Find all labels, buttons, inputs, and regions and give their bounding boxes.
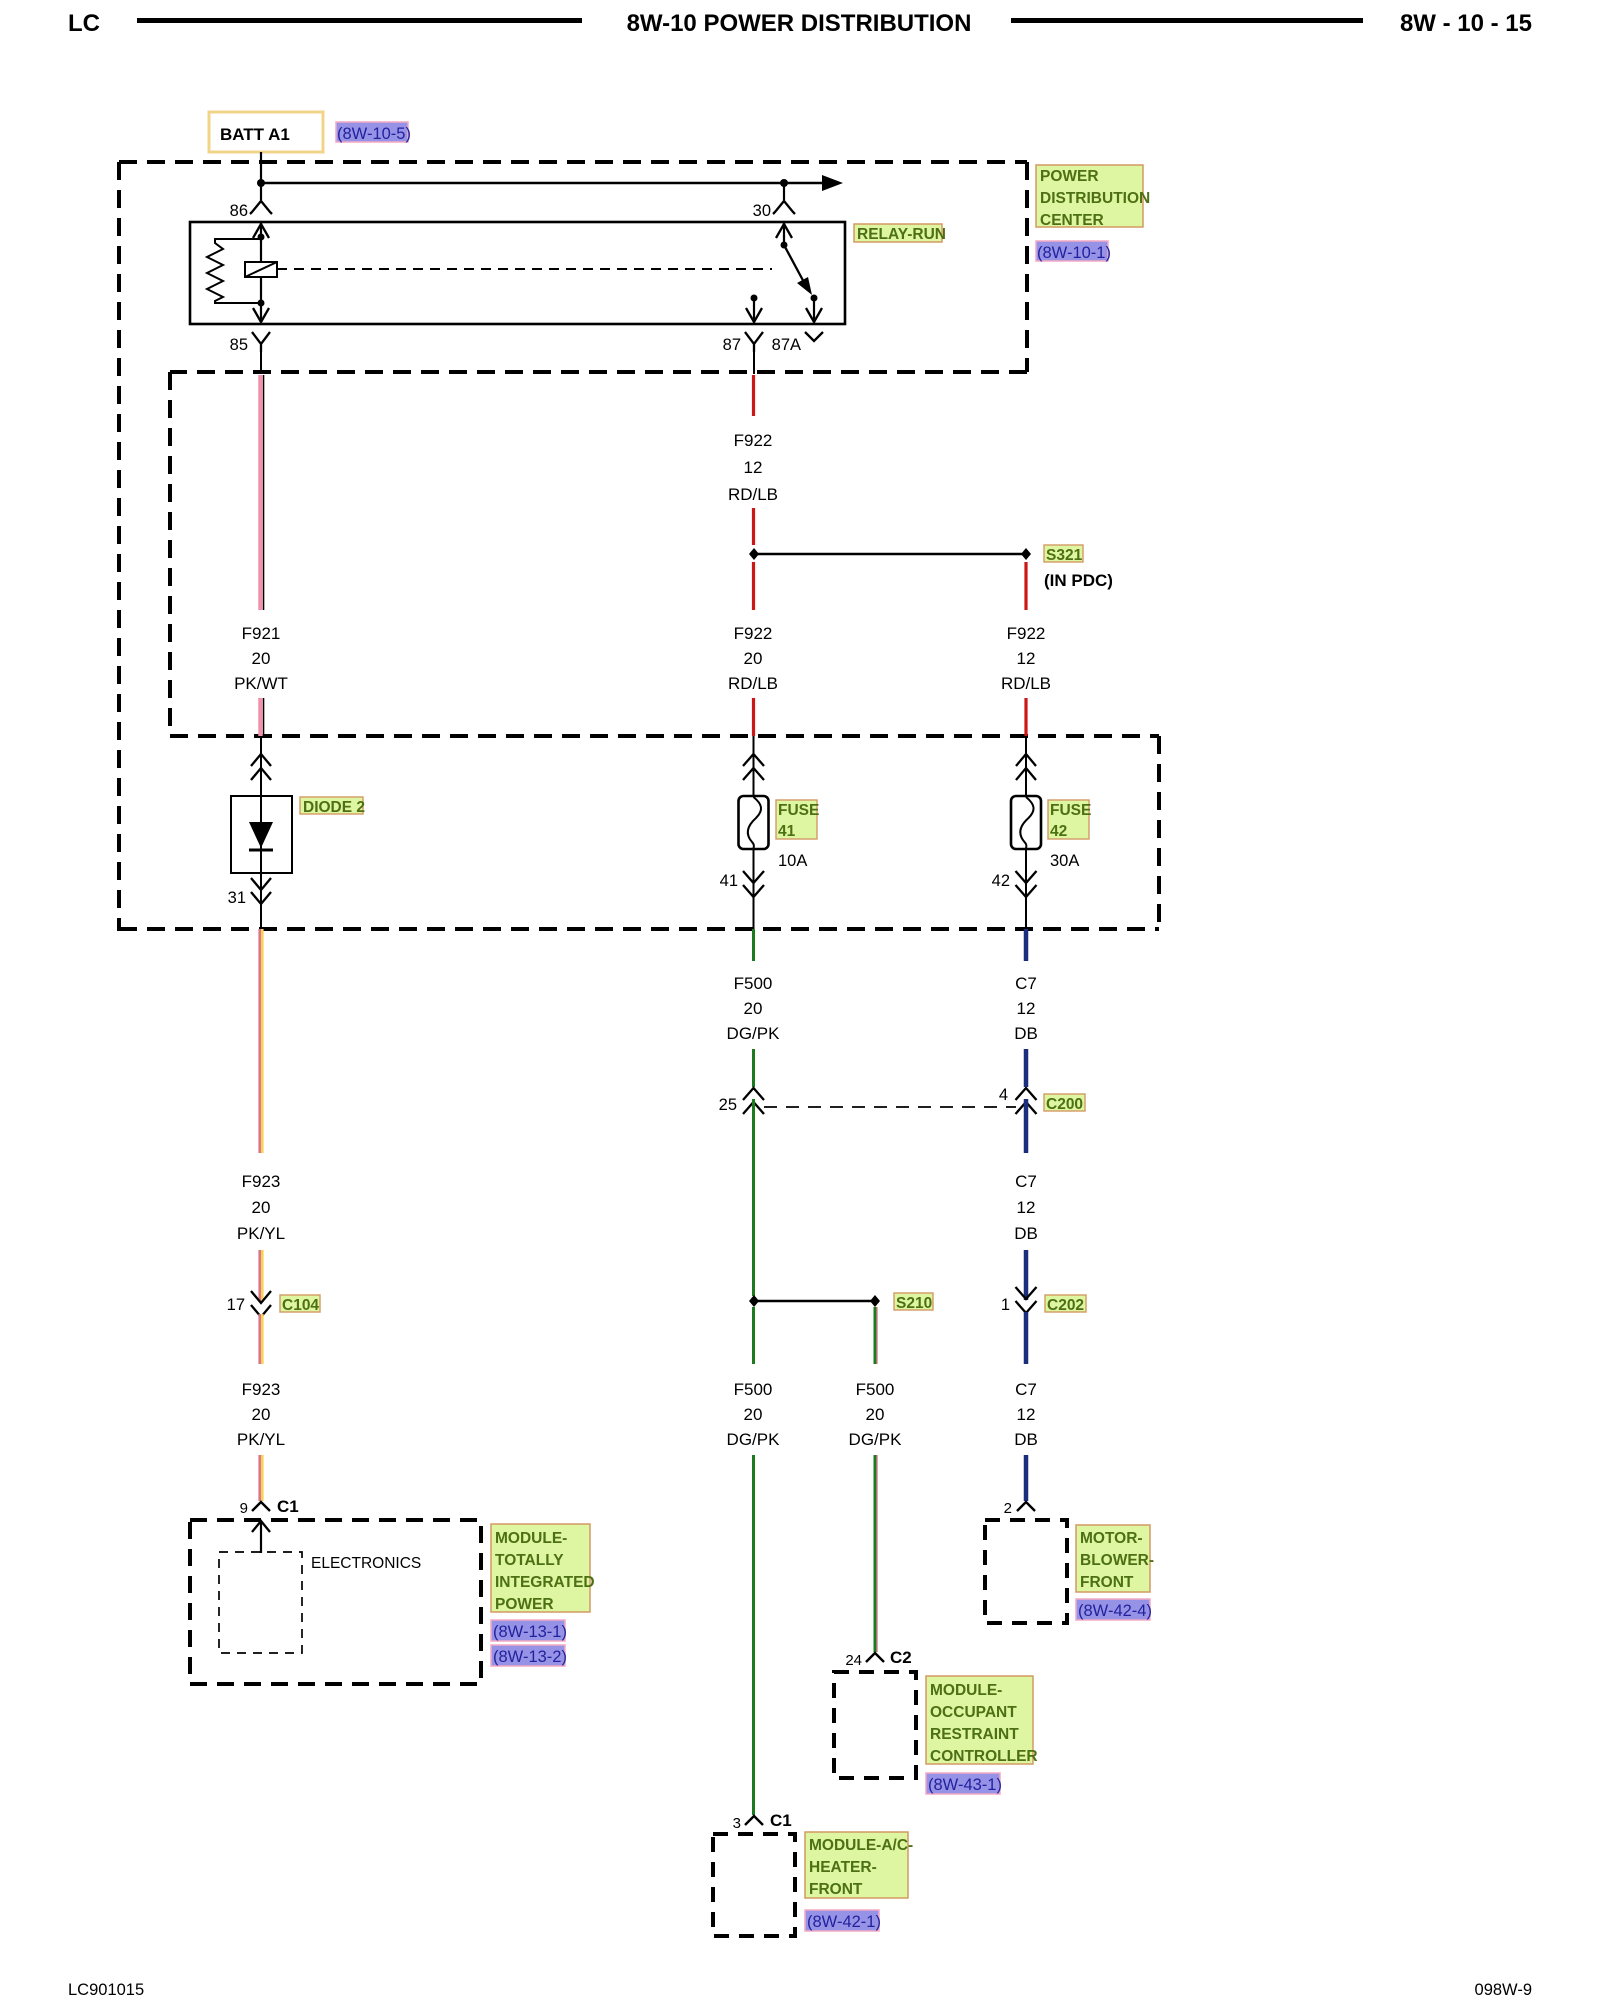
svg-text:(8W-10-5): (8W-10-5) (337, 125, 411, 143)
module box MODULE-OCCUPANT RESTRAINT CONTROLLER (834, 1672, 916, 1778)
label C202 (1045, 1295, 1086, 1314)
wire F923 PK/YL to pin 9 (260, 1455, 263, 1501)
wire F922 RD/LB below splice (middle) (752, 562, 755, 610)
svg-text:(8W-42-4): (8W-42-4) (1078, 1602, 1152, 1620)
svg-text:F500: F500 (734, 1380, 773, 1399)
wire C7 DB below C200 (1024, 1099, 1029, 1153)
svg-text:20: 20 (744, 649, 763, 668)
svg-text:TOTALLY: TOTALLY (495, 1552, 564, 1569)
svg-text:RESTRAINT: RESTRAINT (930, 1726, 1019, 1743)
pin 31 (228, 878, 271, 907)
wire C7 DB below C202 (1024, 1312, 1029, 1364)
pin 2 connector (blower motor) (1004, 1500, 1035, 1517)
svg-text:LC: LC (68, 10, 100, 37)
wire label C7 12 DB (1014, 974, 1038, 1043)
fuse section right edge (1157, 736, 1161, 929)
svg-text:F922: F922 (734, 431, 773, 450)
svg-text:C1: C1 (770, 1811, 792, 1830)
wire label F922 12 RD/LB (728, 431, 778, 504)
bus wire to the right with arrow (261, 182, 823, 185)
svg-text:DG/PK: DG/PK (849, 1430, 903, 1449)
wire label F500 20 DG/PK lower (727, 1380, 781, 1449)
svg-text:10A: 10A (778, 852, 807, 870)
pin 86 (230, 201, 272, 220)
svg-text:F500: F500 (734, 974, 773, 993)
branch wire F500 DG/PK to pin 24 (875, 1455, 877, 1652)
wire F923 PK/YL below C104 (260, 1314, 263, 1364)
wire C7 DB to C202 (1024, 1250, 1029, 1300)
middle wire entering fuse block (753, 736, 755, 796)
wire label F922 20 RD/LB (728, 624, 778, 693)
svg-text:S210: S210 (896, 1295, 932, 1312)
fuse FUSE 41 (739, 796, 769, 849)
svg-text:20: 20 (252, 1405, 271, 1424)
svg-text:3: 3 (733, 1815, 741, 1832)
svg-text:DB: DB (1014, 1224, 1038, 1243)
PDC dashed box top edge (119, 160, 1027, 164)
wire F500 DG/PK to C200 (752, 1049, 755, 1087)
label FUSE 41 (776, 800, 819, 840)
diode DIODE 2 (231, 796, 292, 873)
svg-text:LC901015: LC901015 (68, 1981, 144, 1999)
coil exit arrow to pin 85 (260, 303, 262, 322)
connector C104 (227, 1291, 271, 1317)
page reference (8W-13-1) (491, 1620, 567, 1641)
wire F922 RD/LB right branch below splice (1024, 562, 1027, 610)
svg-text:8W - 10 - 15: 8W - 10 - 15 (1400, 10, 1532, 37)
label S210 (894, 1293, 933, 1312)
svg-text:41: 41 (720, 872, 738, 890)
label MODULE-A/C-HEATER-FRONT (805, 1832, 913, 1898)
svg-text:DB: DB (1014, 1024, 1038, 1043)
svg-text:(8W-42-1): (8W-42-1) (807, 1913, 881, 1931)
connector C202 (1001, 1287, 1037, 1314)
svg-text:C7: C7 (1015, 1172, 1037, 1191)
svg-text:BATT A1: BATT A1 (220, 125, 290, 144)
module box MODULE-TOTALLY INTEGRATED POWER (190, 1520, 481, 1684)
label POWER DISTRIBUTION CENTER (1036, 165, 1150, 229)
wire F500 DG/PK below S210 (752, 1307, 755, 1364)
wire pin85 to PDC edge (260, 352, 262, 374)
wire F922 RD/LB to fuse 42 (1024, 698, 1027, 736)
svg-text:098W-9: 098W-9 (1475, 1981, 1532, 1999)
svg-text:F923: F923 (242, 1172, 281, 1191)
svg-text:MODULE-: MODULE- (930, 1682, 1002, 1699)
page reference (8W-13-2) (491, 1645, 567, 1666)
svg-text:F923: F923 (242, 1380, 281, 1399)
battery feed box BATT A1 (209, 112, 323, 152)
module box MODULE-A/C-HEATER-FRONT (713, 1834, 795, 1936)
svg-text:1: 1 (1001, 1296, 1010, 1314)
label C104 (280, 1295, 320, 1314)
electronics inner dashed box (219, 1552, 302, 1653)
svg-text:CENTER: CENTER (1040, 212, 1104, 229)
svg-text:(IN PDC): (IN PDC) (1044, 571, 1113, 590)
svg-text:OCCUPANT: OCCUPANT (930, 1704, 1017, 1721)
wire F921 PK/WT lower segment (258, 698, 263, 736)
svg-text:S321: S321 (1046, 547, 1083, 564)
wire F923 PK/YL below fuse block (260, 929, 263, 1153)
connector C200 pin 4 (999, 1086, 1037, 1114)
svg-text:PK/YL: PK/YL (237, 1224, 285, 1243)
wire from BATT A1 down (260, 152, 262, 200)
svg-text:CONTROLLER: CONTROLLER (930, 1748, 1038, 1765)
header rule left (137, 18, 582, 23)
svg-text:86: 86 (230, 202, 248, 220)
svg-text:9: 9 (240, 1500, 248, 1517)
splice node S321 left (749, 548, 759, 560)
svg-text:20: 20 (744, 999, 763, 1018)
page reference (8W-10-5) (336, 122, 411, 143)
label MODULE-TOTALLY INTEGRATED POWER (491, 1524, 595, 1613)
svg-text:12: 12 (1017, 1198, 1036, 1217)
pin 87A (772, 332, 823, 354)
node above pin 30 (780, 179, 788, 187)
svg-text:DG/PK: DG/PK (727, 1024, 781, 1043)
svg-text:C2: C2 (890, 1648, 912, 1667)
svg-text:12: 12 (1017, 649, 1036, 668)
node at pin 87A (811, 295, 818, 302)
svg-text:12: 12 (1017, 1405, 1036, 1424)
svg-text:HEATER-: HEATER- (809, 1859, 877, 1876)
PDC dashed box right edge (1025, 162, 1029, 372)
wire F922 RD/LB to fuse 41 (752, 698, 755, 736)
wire F921 PK/WT upper segment (258, 375, 263, 610)
module box MOTOR-BLOWER-FRONT (985, 1520, 1067, 1623)
pin 3 connector C1 (A/C heater) (733, 1811, 792, 1832)
label C200 (1044, 1094, 1085, 1113)
svg-text:8W-10 POWER DISTRIBUTION: 8W-10 POWER DISTRIBUTION (627, 10, 972, 37)
svg-text:(8W-43-1): (8W-43-1) (928, 1776, 1002, 1794)
svg-text:17: 17 (227, 1296, 245, 1314)
pin 42 (992, 871, 1037, 897)
svg-text:FUSE: FUSE (778, 802, 819, 819)
svg-text:12: 12 (744, 458, 763, 477)
wire C7 DB to C200 (1024, 1049, 1029, 1087)
page reference (8W-10-1) (1036, 241, 1111, 262)
svg-text:BLOWER-: BLOWER- (1080, 1552, 1154, 1569)
wire label C7 12 DB lower (1014, 1380, 1038, 1449)
svg-text:DISTRIBUTION: DISTRIBUTION (1040, 190, 1150, 207)
pin 41 (720, 871, 764, 897)
wire F500 DG/PK below fuse 41 (752, 929, 755, 961)
PDC dashed box left edge (full height) (117, 162, 121, 931)
relay RELAY-RUN outline (190, 222, 845, 324)
svg-text:42: 42 (992, 872, 1010, 890)
inner dashed box bottom edge / fuse section top (170, 734, 1159, 738)
svg-text:FRONT: FRONT (1080, 1574, 1134, 1591)
fuse section bottom edge (119, 927, 1159, 931)
wire C7 DB to pin 2 (1024, 1455, 1029, 1501)
wire F500 DG/PK to S210 (752, 1099, 755, 1296)
splice S210 link (754, 1300, 875, 1303)
switch blade with arrow (784, 245, 806, 286)
svg-text:DB: DB (1014, 1430, 1038, 1449)
node at battery feed (257, 179, 265, 187)
svg-text:DG/PK: DG/PK (727, 1430, 781, 1449)
pin 24 connector C2 (ORC) (845, 1648, 911, 1669)
wire F922 RD/LB from pin 87 (752, 375, 755, 416)
pin 30 (753, 201, 795, 220)
svg-text:DIODE 2: DIODE 2 (303, 799, 365, 816)
svg-text:FUSE: FUSE (1050, 802, 1091, 819)
connector C200 pin 25 (719, 1088, 764, 1114)
label S321 (1044, 545, 1083, 564)
left wire entering fuse block (260, 736, 262, 796)
svg-text:20: 20 (866, 1405, 885, 1424)
svg-text:INTEGRATED: INTEGRATED (495, 1574, 595, 1591)
label FUSE 42 (1048, 800, 1091, 840)
svg-text:C104: C104 (282, 1297, 319, 1314)
svg-text:RELAY-RUN: RELAY-RUN (857, 226, 946, 243)
svg-text:C7: C7 (1015, 1380, 1037, 1399)
svg-text:42: 42 (1050, 823, 1067, 840)
wire F923 PK/YL to C104 (260, 1250, 263, 1302)
PDC dashed box bottom edge (170, 370, 1027, 374)
svg-text:MODULE-A/C-: MODULE-A/C- (809, 1837, 913, 1854)
node at pin 87 (751, 295, 758, 302)
pin 87 (723, 332, 763, 354)
svg-text:MODULE-: MODULE- (495, 1530, 567, 1547)
svg-text:87A: 87A (772, 336, 801, 354)
svg-text:(8W-10-1): (8W-10-1) (1037, 244, 1111, 262)
svg-text:RD/LB: RD/LB (728, 674, 778, 693)
svg-text:F922: F922 (1007, 624, 1046, 643)
page reference (8W-43-1) (926, 1773, 1002, 1794)
wire label F923 20 PK/YL (237, 1172, 285, 1243)
wire F500 DG/PK long run to pin 3 (752, 1455, 755, 1815)
svg-text:4: 4 (999, 1086, 1008, 1104)
page reference (8W-42-1) (805, 1910, 881, 1931)
wire label F500 20 DG/PK branch (849, 1380, 903, 1449)
svg-text:POWER: POWER (1040, 168, 1099, 185)
svg-text:F500: F500 (856, 1380, 895, 1399)
branch wire F500 DG/PK from S210 (875, 1307, 877, 1364)
svg-text:12: 12 (1017, 999, 1036, 1018)
wire C7 DB below fuse 42 (1024, 929, 1029, 961)
svg-text:31: 31 (228, 889, 246, 907)
svg-text:30A: 30A (1050, 852, 1079, 870)
wire pin87 to PDC edge (753, 352, 755, 374)
svg-text:FRONT: FRONT (809, 1881, 863, 1898)
entry arrow inside TIPM (252, 1521, 270, 1553)
svg-text:POWER: POWER (495, 1596, 554, 1613)
C200 connector dashed link (764, 1106, 1016, 1108)
splice node S321 right (1021, 548, 1031, 560)
fuse FUSE 42 (1011, 796, 1041, 849)
page reference (8W-42-4) (1076, 1599, 1152, 1620)
svg-text:24: 24 (845, 1652, 862, 1669)
inner dashed box left edge (168, 372, 172, 736)
relay coil branch: entry arrow pin 86 (253, 224, 269, 238)
svg-text:C202: C202 (1047, 1297, 1084, 1314)
label MOTOR-BLOWER-FRONT (1076, 1525, 1154, 1592)
svg-text:C7: C7 (1015, 974, 1037, 993)
svg-text:2: 2 (1004, 1500, 1012, 1517)
svg-text:30: 30 (753, 202, 771, 220)
wire label F921 20 PK/WT (234, 624, 288, 693)
splice S321 link (754, 553, 1026, 556)
relay coil (245, 262, 277, 277)
svg-text:41: 41 (778, 823, 796, 840)
svg-text:20: 20 (252, 1198, 271, 1217)
coil to switch dashed link (277, 268, 772, 270)
svg-text:(8W-13-1): (8W-13-1) (493, 1623, 567, 1641)
wire label C7 12 DB mid (1014, 1172, 1038, 1243)
label RELAY-RUN (854, 224, 946, 243)
wire down to pin 30 (783, 183, 785, 200)
header rule right (1011, 18, 1363, 23)
pin 85 (230, 332, 270, 354)
label MODULE-OCCUPANT RESTRAINT CONTROLLER (926, 1676, 1038, 1765)
splice node S210 right (870, 1295, 880, 1307)
svg-text:85: 85 (230, 336, 248, 354)
connector chevrons right (1016, 754, 1036, 780)
relay switch: entry arrow pin 30 (776, 224, 792, 238)
wire F922 RD/LB above splice (752, 508, 755, 545)
svg-text:25: 25 (719, 1096, 737, 1114)
splice node S210 left (749, 1295, 759, 1307)
svg-text:ELECTRONICS: ELECTRONICS (311, 1555, 421, 1572)
svg-text:(8W-13-2): (8W-13-2) (493, 1648, 567, 1666)
svg-text:87: 87 (723, 336, 741, 354)
svg-text:C200: C200 (1046, 1096, 1083, 1113)
label DIODE 2 (300, 797, 365, 816)
connector chevrons left (251, 754, 271, 780)
svg-text:PK/WT: PK/WT (234, 674, 288, 693)
svg-text:20: 20 (252, 649, 271, 668)
wire label F922 12 RD/LB right (1001, 624, 1051, 693)
right wire entering fuse block (1025, 736, 1027, 796)
svg-text:F922: F922 (734, 624, 773, 643)
svg-text:20: 20 (744, 1405, 763, 1424)
svg-text:RD/LB: RD/LB (728, 485, 778, 504)
svg-text:PK/YL: PK/YL (237, 1430, 285, 1449)
svg-text:F921: F921 (242, 624, 281, 643)
svg-text:C1: C1 (277, 1497, 299, 1516)
wire label F500 20 DG/PK (727, 974, 781, 1043)
connector chevrons middle (743, 754, 764, 780)
pin 9 connector C1 (TIPM) (240, 1497, 299, 1517)
resistor inside relay (207, 239, 261, 303)
wire label F923 20 PK/YL lower (237, 1380, 285, 1449)
svg-text:MOTOR-: MOTOR- (1080, 1530, 1143, 1547)
svg-text:RD/LB: RD/LB (1001, 674, 1051, 693)
